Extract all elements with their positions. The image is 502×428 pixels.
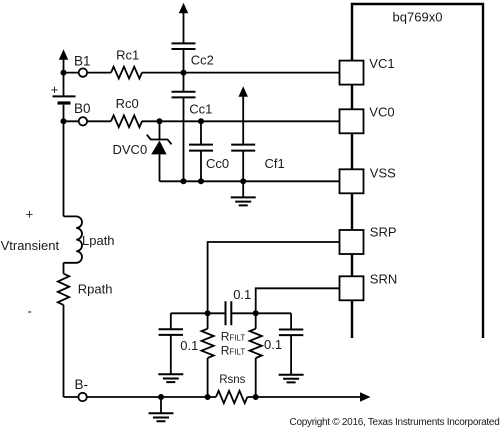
wire Cc1 branch vertical (crosses VC0 row, no junction) (183, 73, 185, 182)
wire Cf1 branch vertical (crosses VC0 row, no junction) (242, 96, 244, 182)
capacitor Cc1 (172, 92, 196, 98)
wire VC1 row: left bus to VC1 pin (64, 72, 340, 74)
svg-text:Rsns: Rsns (219, 374, 245, 386)
ground on bottom rail (149, 413, 174, 421)
terminal circle B- (78, 393, 86, 401)
junction dot Cc2/VC1 row (181, 70, 187, 76)
svg-text:Cc0: Cc0 (206, 156, 229, 171)
svg-text:Cc2: Cc2 (191, 53, 214, 68)
wire SRN: pin to filter node (256, 288, 340, 313)
wire VSS row: DVC0 to VSS pin (160, 180, 340, 182)
svg-text:0.1: 0.1 (264, 337, 282, 352)
wire Cc0 branch vertical (200, 121, 202, 181)
svg-text:DVC0: DVC0 (113, 142, 148, 157)
capacitor Cc0 (189, 145, 213, 151)
junction dot ground/bottom rail (158, 394, 164, 400)
svg-text:B-: B- (75, 377, 89, 392)
junction dot B0/bus (61, 118, 67, 124)
svg-text:Lpath: Lpath (82, 233, 115, 248)
svg-text:Rpath: Rpath (78, 282, 113, 297)
svg-text:0.1: 0.1 (233, 287, 251, 302)
wire bottom row B- to arrow (64, 396, 361, 398)
arrow right at end of bottom rail (360, 392, 371, 401)
pin box VC0 (340, 109, 364, 133)
wire bus below inductor (63, 263, 65, 397)
junction dot Rsns right (253, 394, 259, 400)
svg-text:Rc0: Rc0 (116, 96, 139, 111)
IC U1 bq769x0 outline (open bottom) (352, 4, 483, 338)
junction dot SRP/filter row (205, 310, 211, 316)
wire left shunt cap branch (170, 313, 172, 374)
zener diode DVC0 anode triangle (151, 141, 166, 155)
pin box SRP (340, 230, 364, 254)
wire Cc2 branch vertical (183, 12, 185, 73)
svg-text:bq769x0: bq769x0 (393, 10, 443, 25)
junction dot SRN/filter row (253, 310, 259, 316)
svg-text:Vtransient: Vtransient (1, 238, 60, 253)
wire bottom ground stub (160, 397, 162, 413)
capacitor Cf1 (231, 145, 255, 151)
svg-text:Copyright © 2016, Texas Instru: Copyright © 2016, Texas Instruments Inco… (290, 417, 500, 428)
junction dot DVC0/VC0 row (157, 118, 163, 124)
junction dot B1/bus (61, 70, 67, 76)
svg-text:B1: B1 (74, 53, 91, 68)
svg-text:+: + (51, 82, 59, 97)
resistor RFILT right (250, 329, 262, 358)
junction dot Rsns left (205, 394, 211, 400)
junction dot Cc1/VSS row (181, 178, 187, 184)
resistor Rc1 (111, 67, 142, 79)
wire Cf1 ground stub (242, 181, 244, 197)
junction dot Cc0/VC0 row (198, 118, 204, 124)
wire RFILT left branch (207, 313, 209, 397)
resistor Rpath (58, 274, 69, 305)
pin box SRN (340, 276, 364, 300)
capacitor 0.1 series (between SRP/SRN nodes) (226, 301, 232, 325)
svg-text:SRP: SRP (370, 225, 397, 240)
wire right shunt cap branch (290, 313, 292, 375)
ground below right shunt cap (279, 375, 304, 383)
arrow up above Cc2 (179, 3, 188, 14)
svg-text:Cc1: Cc1 (189, 102, 212, 117)
terminal circle B0 (79, 117, 87, 125)
capacitor 0.1 left shunt (159, 329, 183, 335)
svg-text:+: + (26, 206, 34, 221)
resistor Rsns (216, 391, 247, 403)
svg-text:VC0: VC0 (369, 105, 394, 120)
ground below left shunt cap (158, 374, 183, 382)
wire RFILT right branch (255, 313, 257, 397)
svg-text:-: - (28, 304, 32, 319)
ground below Cf1 (231, 197, 256, 205)
junction dot Cc0/VSS row (198, 178, 204, 184)
svg-text:VSS: VSS (370, 166, 396, 181)
svg-text:B0: B0 (74, 101, 91, 116)
resistor Rc0 (111, 115, 142, 127)
battery cell B1-B0 (53, 95, 76, 97)
svg-text:Rc1: Rc1 (116, 48, 139, 63)
terminal circle B1 (79, 68, 87, 76)
junction dot Cf1/VSS row (240, 178, 246, 184)
resistor RFILT left (202, 329, 214, 358)
arrow up above Cf1 (239, 86, 248, 97)
capacitor Cc2 (172, 43, 196, 49)
pin box VSS (340, 169, 364, 193)
wire left bus vertical (63, 57, 65, 217)
zener diode DVC0 cathode bar with wings (147, 135, 172, 145)
svg-text:0.1: 0.1 (180, 338, 198, 353)
arrow up above B1 (to next cell) (59, 49, 68, 60)
svg-text:VC1: VC1 (369, 56, 394, 71)
wire filter row (171, 312, 291, 314)
svg-text:Cf1: Cf1 (265, 156, 285, 171)
wire SRP: pin to filter node (208, 242, 340, 313)
capacitor 0.1 right shunt (279, 330, 303, 336)
pin box VC1 (340, 61, 364, 85)
inductor Lpath (64, 216, 83, 262)
wire VC0 row: left bus to VC0 pin (64, 120, 340, 122)
svg-text:SRN: SRN (370, 272, 397, 287)
